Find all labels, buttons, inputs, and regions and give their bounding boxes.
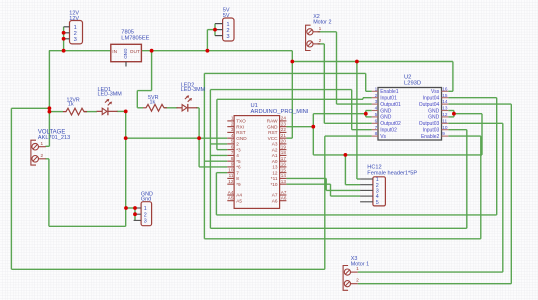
connector X2 Motor 2 screw terminal (306, 25, 311, 50)
wire 5VR drop (151, 51, 153, 91)
svg-text:*6: *6 (236, 165, 241, 170)
wire tap U1 pin8 (204, 160, 227, 162)
pin 2 of GND header (134, 213, 142, 215)
pin 24 of U1 (RAW) (280, 120, 287, 122)
svg-text:RST: RST (268, 130, 278, 135)
pin 2 of 12V connector (64, 32, 70, 34)
pin 2 of X2 (307, 41, 313, 47)
svg-text:A0: A0 (272, 159, 278, 164)
wire up to U2 Output04 (510, 104, 512, 284)
svg-text:1: 1 (319, 26, 322, 32)
pin 7 of U2 (Input02) (372, 129, 378, 131)
pin 2 of U2 (Input01) (372, 97, 378, 99)
svg-text:10: 10 (442, 125, 448, 130)
pin 1 of U2 (Enable1) (372, 90, 378, 92)
junction 12V pin2 (62, 31, 66, 35)
pin 7 of U1 (4) (227, 154, 234, 156)
svg-text:Output04: Output04 (419, 102, 440, 108)
wire input trunk A vertical (209, 90, 211, 229)
svg-text:GND: GND (123, 49, 128, 60)
wire jog down (330, 184, 332, 196)
svg-text:22: 22 (281, 127, 287, 132)
svg-text:11: 11 (442, 118, 447, 123)
wire into U2 Enable1 pin1 (366, 90, 372, 92)
wire down to U2 Enable1 (365, 73, 367, 91)
svg-text:13: 13 (272, 165, 278, 170)
resistor 5VR 1k (143, 104, 167, 111)
svg-text:Output01: Output01 (380, 102, 401, 108)
wire into U1 VCC pin21 (286, 137, 292, 139)
wire to 5VR (137, 107, 143, 109)
wire into U2 GND pin5 (366, 116, 372, 118)
svg-text:GND: GND (380, 115, 392, 121)
svg-text:Motor 1: Motor 1 (351, 262, 369, 268)
wire to 12VR (49, 111, 63, 113)
svg-text:*5: *5 (236, 159, 241, 164)
pin 2 of VOLTAGE (32, 156, 39, 163)
wire GND to U2 left (313, 113, 366, 115)
svg-text:2: 2 (144, 212, 147, 218)
connector HC12 female header 1*5P (373, 177, 386, 206)
svg-text:15: 15 (281, 167, 287, 172)
junction U1 GND (311, 125, 315, 129)
svg-text:16: 16 (442, 86, 448, 91)
svg-text:8: 8 (231, 156, 234, 161)
pin 1 of X3 (344, 269, 350, 275)
wire 5V connector drop (206, 30, 208, 51)
wire 5V connector tap (207, 29, 215, 31)
svg-text:1: 1 (144, 206, 147, 212)
pin 19 of U1 (A2) (280, 149, 287, 151)
svg-text:17: 17 (281, 156, 287, 161)
svg-text:Input03: Input03 (423, 128, 440, 134)
svg-text:A4: A4 (228, 190, 234, 195)
pin A7 of U1 (280, 194, 287, 196)
svg-text:RXI: RXI (236, 124, 244, 129)
junction 5V connector (206, 49, 210, 53)
junction Gnd pin1 (133, 206, 137, 210)
svg-text:14: 14 (442, 99, 448, 104)
svg-text:1: 1 (375, 86, 378, 91)
svg-text:23: 23 (281, 121, 287, 126)
wire into U2 Enable2 pin9 (448, 135, 481, 137)
pin 5 of HC12 (360, 201, 373, 203)
wire GND rail middle (313, 154, 482, 156)
pin 12 of U2 (GND) (442, 116, 449, 118)
pin 10 of U2 (Input03) (442, 129, 449, 131)
svg-text:24: 24 (281, 116, 287, 121)
pin 1 of X2 (307, 29, 313, 35)
svg-text:10: 10 (228, 167, 234, 172)
op-amp U1 ARDUINO_PRO_MINI box (234, 116, 280, 209)
wire VOLTAGE pin2 down (48, 159, 50, 227)
svg-text:9: 9 (231, 162, 234, 167)
svg-text:11: 11 (229, 173, 234, 178)
pin 9 of U1 (*6) (227, 166, 234, 168)
pin 16 of U2 (Vss) (442, 90, 449, 92)
wire into U2 Output04 pin14 (448, 103, 511, 105)
svg-text:5: 5 (231, 139, 234, 144)
pin 4 of U1 (GND) (227, 137, 234, 139)
wire GND down to HC12 pin2 (344, 155, 346, 185)
LED LED2 LED-3MM (177, 107, 183, 109)
wire U2 GND tie right (453, 111, 455, 117)
pin 18 of U1 (A1) (280, 154, 287, 156)
pin 3 of U1 (RST) (227, 131, 234, 133)
wire 5V rail from OUT (141, 50, 292, 52)
wire GND vertical LED1 column (125, 111, 127, 226)
svg-text:2: 2 (41, 153, 44, 158)
svg-text:*9: *9 (236, 182, 241, 187)
junction 5V pin2 (213, 28, 217, 32)
svg-text:13: 13 (281, 179, 287, 184)
connector 12V supply header (70, 21, 83, 44)
svg-text:Input04: Input04 (423, 96, 440, 102)
svg-text:18: 18 (281, 150, 287, 155)
wire vertical up to U2 Vs (324, 136, 326, 269)
svg-text:7: 7 (236, 170, 239, 175)
svg-text:Input01: Input01 (380, 96, 397, 102)
junction Gnd pin2 (133, 212, 137, 216)
wire U1 pin14 *11 right (286, 177, 326, 179)
svg-text:12: 12 (228, 179, 234, 184)
wire input trunk B bottom (216, 214, 496, 216)
pin A5 of U1 (227, 200, 234, 202)
svg-text:ARDUINO_PRO_MINI: ARDUINO_PRO_MINI (251, 109, 309, 115)
svg-text:2: 2 (375, 93, 378, 98)
wire down to U2 Vss (452, 62, 454, 92)
svg-text:LED-3MM: LED-3MM (181, 87, 206, 93)
junction U2 GND left (364, 112, 368, 116)
wire 12VR to LED1 (84, 111, 97, 113)
wire LED2 down to GND rail (198, 108, 200, 138)
wire 12V branch left (11, 107, 49, 109)
svg-text:A4: A4 (236, 193, 242, 198)
wire enable trunk vertical (203, 73, 205, 238)
svg-text:A5: A5 (236, 198, 242, 203)
pin 5 of U1 (2) (227, 143, 234, 145)
wire X3 pin2 (358, 283, 512, 285)
svg-text:GND: GND (267, 124, 278, 129)
wire U1 GND pin23 (286, 126, 313, 128)
wire into U2 Output01 pin3 (337, 103, 372, 105)
wire jog up to U2 Input01 (362, 98, 364, 100)
ground connector GND Gnd header (141, 202, 152, 226)
svg-text:1k: 1k (150, 99, 156, 105)
wire into U2 Output03 pin11 (448, 122, 503, 124)
junction LED1 cathode (124, 110, 128, 114)
pin 6 of U2 (Output02) (372, 122, 378, 124)
svg-text:Motor 2: Motor 2 (313, 20, 331, 26)
wire tap U1 pin7 (210, 154, 227, 156)
svg-text:Enable2: Enable2 (421, 134, 440, 140)
svg-text:2: 2 (231, 121, 234, 126)
pin 4 of HC12 (360, 195, 373, 197)
svg-text:4: 4 (375, 106, 378, 111)
svg-text:TXO: TXO (236, 119, 246, 124)
junction Gnd header (124, 206, 128, 210)
pin 3 of GND header (134, 219, 142, 221)
pin 1 of 12V connector (64, 26, 70, 28)
pin 3 of 12V connector (64, 38, 70, 40)
wire into U2 Output02 pin6 (324, 122, 372, 124)
junction 5V to VCC (290, 60, 294, 64)
junction GND rail left (124, 136, 128, 140)
wire to VOLTAGE pin2 (46, 158, 49, 160)
svg-text:VCC: VCC (268, 136, 279, 141)
junction 5V to HC12 (355, 60, 359, 64)
svg-text:RAW: RAW (267, 119, 278, 124)
wire into U2 Vss pin16 (448, 90, 453, 92)
svg-text:21: 21 (281, 133, 287, 138)
svg-text:16: 16 (281, 162, 287, 167)
wire up to U2 Output03 (502, 123, 504, 272)
wire GND up right (481, 114, 483, 155)
svg-text:9: 9 (442, 131, 445, 136)
wire 5V rail upper (292, 61, 453, 63)
wire into U1 pin9 (199, 166, 227, 168)
wire to U2 GND right (454, 113, 482, 115)
svg-text:RST: RST (236, 130, 246, 135)
wire into U2 GND pin12 (448, 116, 454, 118)
pin 12 of U1 (*9) (227, 183, 234, 185)
svg-text:GND: GND (380, 108, 392, 114)
svg-text:A5: A5 (228, 196, 234, 201)
pin 2 of HC12 (360, 184, 373, 186)
pin 2 of U1 (RXI) (227, 126, 234, 128)
svg-text:7: 7 (375, 125, 378, 130)
svg-text:12V: 12V (69, 16, 79, 22)
wire GND rail to U1 GND pin4 (126, 137, 228, 139)
svg-text:3: 3 (231, 127, 234, 132)
wire 12V rail to regulator IN (49, 50, 111, 52)
wire 5V down to U1 VCC (291, 62, 293, 139)
wire U1 pin10 down (215, 173, 217, 215)
svg-text:GND: GND (236, 136, 247, 141)
pin 1 of 5V connector (215, 23, 223, 25)
wire LED2 cathode (196, 107, 199, 109)
svg-text:U2: U2 (404, 75, 411, 81)
wire input trunk B top (217, 98, 363, 100)
pin A6 of U1 (280, 200, 287, 202)
svg-text:8: 8 (375, 131, 378, 136)
wire 12V connector drop (63, 27, 65, 51)
svg-text:20: 20 (281, 139, 287, 144)
wire GND horizontal bottom left (49, 225, 126, 227)
svg-text:2: 2 (319, 38, 322, 44)
wire Gnd header tie (134, 208, 136, 220)
pin 9 of U2 (Enable2) (442, 135, 449, 137)
svg-text:A6: A6 (272, 198, 278, 203)
wire tap U1 pin5 (210, 143, 227, 145)
svg-text:LM7805EE: LM7805EE (121, 35, 149, 41)
wire 5V corner down (291, 51, 293, 62)
pin 11 of U2 (Output03) (442, 122, 449, 124)
wire bottom 12V rail (11, 268, 324, 270)
svg-text:Input02: Input02 (380, 128, 397, 134)
wire jog down (325, 178, 327, 190)
junction U2 GND right (452, 112, 456, 116)
wire 12V vertical to VOLTAGE pin1 (48, 51, 50, 147)
svg-text:8: 8 (236, 176, 239, 181)
pin A4 of U1 (227, 194, 234, 196)
wire GND vertical (312, 114, 314, 155)
wire into HC12 pin4 (331, 195, 361, 197)
svg-text:2: 2 (236, 142, 239, 147)
svg-text:1: 1 (231, 116, 234, 121)
wire into HC12 pin3 (326, 189, 360, 191)
svg-text:1k: 1k (68, 101, 74, 107)
pin 3 of 5V connector (215, 35, 223, 37)
LED LED1 LED-3MM (97, 110, 103, 112)
svg-text:Enable1: Enable1 (380, 89, 399, 95)
pin 22 of U1 (RST) (280, 131, 287, 133)
svg-text:U1: U1 (251, 103, 258, 109)
svg-text:2: 2 (356, 278, 359, 284)
wire 5VR jog (137, 90, 151, 92)
wire 5VR to LED2 (164, 107, 178, 109)
wire tap U1 pin10 (216, 172, 227, 174)
pin 20 of U1 (A3) (280, 143, 287, 145)
svg-text:6: 6 (375, 118, 378, 123)
pin 3 of HC12 (360, 189, 373, 191)
op-amp U2 L293D box (378, 88, 442, 141)
pin 1 of U1 (TXO) (227, 120, 234, 122)
svg-text:A2: A2 (272, 147, 278, 152)
wire enable trunk top (204, 72, 365, 74)
wire X2 pin2 (318, 43, 325, 45)
pin 1 of GND header (134, 207, 142, 209)
pin 10 of U1 (7) (227, 172, 234, 174)
pin 2 of X3 (344, 281, 350, 287)
pin 8 of U1 (*5) (227, 160, 234, 162)
svg-text:Vs: Vs (380, 134, 386, 140)
wire 5V down to HC12 pin1 (356, 62, 358, 180)
svg-text:Output02: Output02 (380, 121, 401, 127)
pin 21 of U1 (VCC) (280, 137, 287, 139)
svg-text:13: 13 (442, 106, 448, 111)
wire into HC12 pin1 (357, 178, 360, 180)
pin 8 of U2 (Vs) (372, 135, 378, 137)
wire 5VR drop2 (136, 91, 138, 108)
junction 12VR branch (48, 110, 52, 114)
svg-text:*10: *10 (270, 182, 277, 187)
svg-text:*11: *11 (271, 176, 278, 181)
pin 15 of U2 (Input04) (442, 97, 449, 99)
wire tap U1 pin6 (217, 149, 227, 151)
svg-text:1: 1 (41, 141, 44, 146)
junction 12V connector (62, 49, 66, 53)
wire into U2 GND pin13 (448, 110, 454, 112)
pin 11 of U1 (8) (227, 177, 234, 179)
svg-text:15: 15 (442, 93, 448, 98)
svg-text:A1: A1 (272, 153, 278, 158)
wire U2 GND tie left (365, 111, 367, 117)
svg-text:5: 5 (375, 112, 378, 117)
resistor 12VR 1k (63, 108, 87, 115)
connector X3 Motor 1 screw terminal (343, 266, 348, 291)
svg-text:19: 19 (281, 144, 287, 149)
pin 1 of HC12 (360, 178, 373, 180)
wire into HC12 pin2 (345, 184, 360, 186)
junction GND rail HC12 (344, 153, 348, 157)
wire input trunk A bottom (210, 227, 466, 229)
pin 2 of 5V connector (215, 29, 223, 31)
pin 4 of U2 (GND) (372, 110, 378, 112)
svg-text:L293D: L293D (404, 81, 421, 87)
svg-text:Output03: Output03 (419, 121, 440, 127)
wire LED1 cathode to junction (117, 110, 126, 112)
wire input trunk A top (210, 89, 351, 91)
wire up to U2 Input03 (466, 130, 468, 229)
pin 6 of U1 (*3) (227, 149, 234, 151)
svg-text:A6: A6 (281, 196, 287, 201)
svg-text:*3: *3 (236, 147, 241, 152)
svg-text:4: 4 (231, 133, 234, 138)
svg-text:GND: GND (428, 108, 440, 114)
wire enable trunk bottom rail (204, 238, 480, 240)
svg-text:7: 7 (231, 150, 234, 155)
svg-text:3: 3 (226, 34, 229, 40)
wire to Gnd header (126, 207, 135, 209)
wire 5V connector tie (214, 24, 216, 36)
junction LED2 column (197, 136, 201, 140)
wire to VOLTAGE pin1 (46, 145, 50, 147)
pin 1 of VOLTAGE (32, 143, 39, 150)
pin 13 of U1 (*10) (280, 183, 287, 185)
svg-text:AKL701_213: AKL701_213 (38, 135, 70, 141)
svg-text:5V: 5V (223, 13, 230, 19)
wire down to U2 Input02 (351, 90, 353, 130)
wire into U2 Input01 pin2 (363, 97, 372, 99)
svg-text:12: 12 (442, 112, 448, 117)
voltage regulator 7805 LM7805EE (111, 44, 142, 61)
svg-text:6: 6 (231, 144, 234, 149)
svg-text:14: 14 (281, 173, 287, 178)
svg-text:A7: A7 (281, 190, 287, 195)
wire down to U1 pin9 (198, 138, 200, 167)
wire into U2 Vs pin8 (325, 135, 372, 137)
pin 13 of U2 (GND) (442, 110, 449, 112)
svg-text:OUT: OUT (130, 49, 140, 55)
junction 12V pin3 (62, 37, 66, 41)
wire X2 pin1 (318, 31, 337, 33)
wire into U2 Input03 pin10 (448, 129, 467, 131)
svg-text:3: 3 (144, 219, 147, 225)
svg-text:5: 5 (376, 200, 379, 206)
pin 3 of U2 (Output01) (372, 103, 378, 105)
svg-text:3: 3 (74, 37, 77, 43)
wire U1 pin13 *10 right (286, 183, 330, 185)
svg-text:A7: A7 (272, 193, 278, 198)
svg-text:LED-3MM: LED-3MM (98, 92, 123, 98)
svg-text:Vss: Vss (431, 89, 440, 95)
wire into U2 Input02 pin7 (352, 129, 372, 131)
pin 17 of U1 (A0) (280, 160, 287, 162)
svg-text:3: 3 (375, 99, 378, 104)
junction 5VR branch (150, 49, 154, 53)
wire up to U2 Enable2 (480, 136, 482, 239)
junction 12V loop (48, 106, 52, 110)
svg-text:Gnd: Gnd (141, 197, 151, 203)
wire X3 pin1 (358, 271, 503, 273)
wire X2 pin1 down (336, 32, 338, 104)
svg-text:Female header1*5P: Female header1*5P (367, 170, 417, 176)
connector 5V supply header (223, 18, 234, 41)
svg-text:GND: GND (428, 115, 440, 121)
wire input trunk B vertical (216, 99, 218, 149)
pin 14 of U1 (*11) (280, 177, 287, 179)
